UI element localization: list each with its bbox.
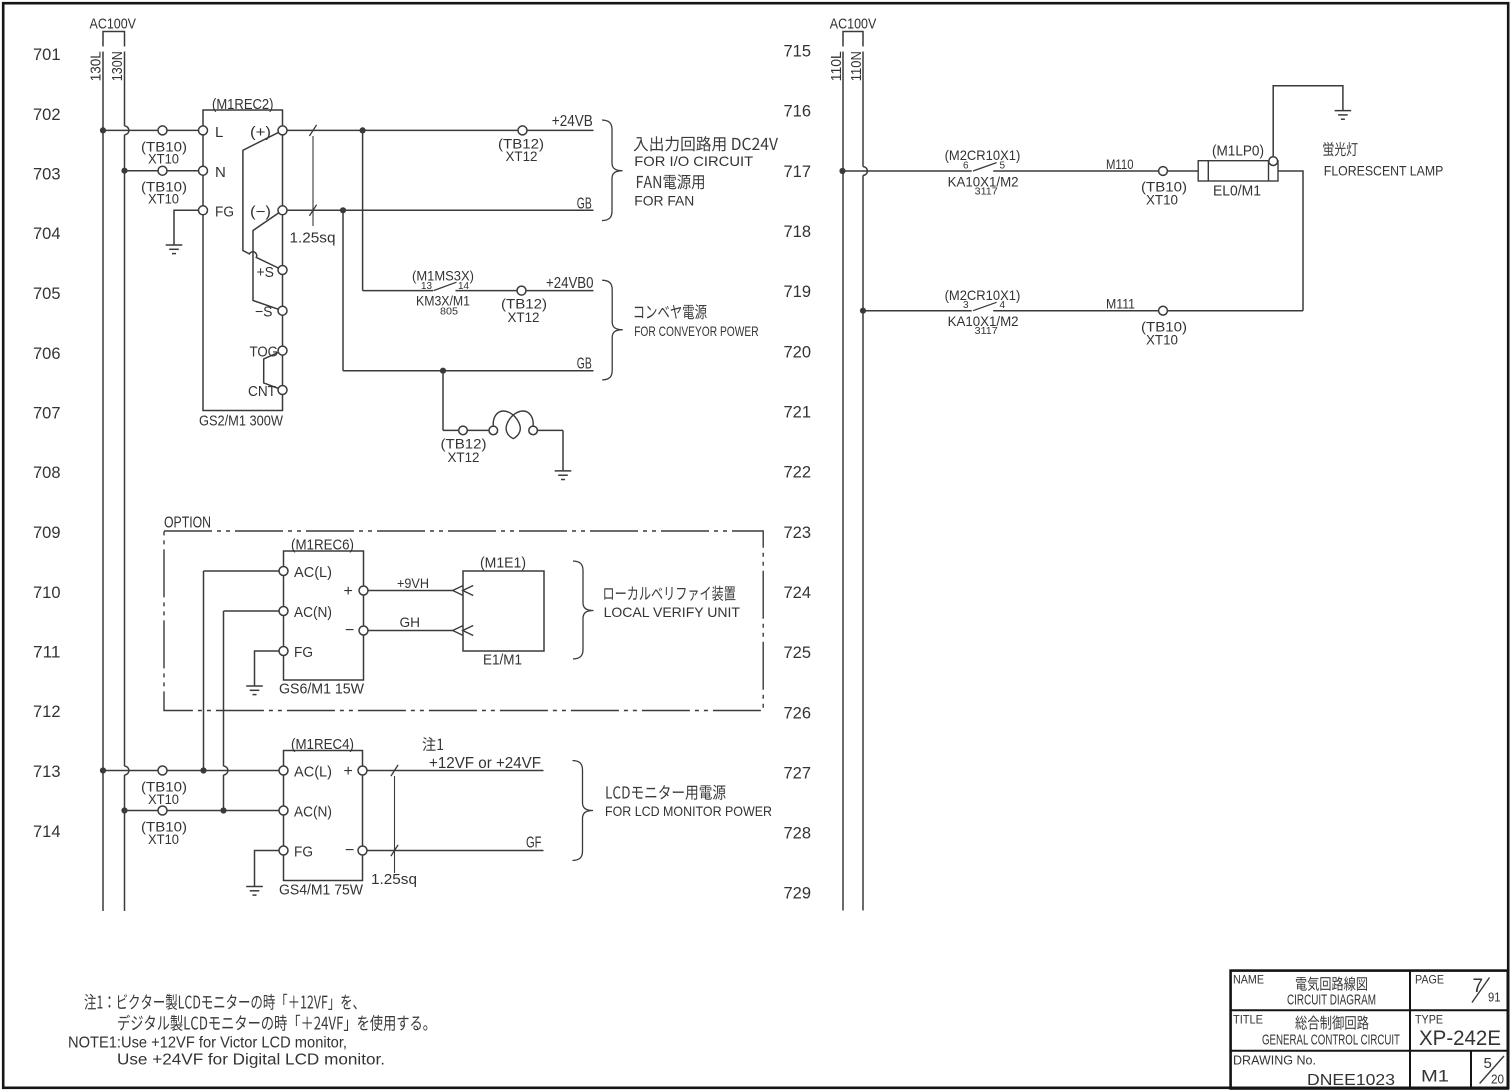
svg-text:20: 20 [1491, 1072, 1504, 1087]
svg-text:XT10: XT10 [1146, 333, 1178, 348]
svg-text:(M2CR10X1): (M2CR10X1) [945, 287, 1021, 303]
svg-text:XT12: XT12 [448, 450, 480, 465]
svg-text:13: 13 [421, 281, 432, 292]
svg-text:110N: 110N [848, 51, 865, 81]
svg-text:FOR CONVEYOR POWER: FOR CONVEYOR POWER [634, 323, 758, 339]
svg-text:707: 707 [33, 405, 61, 423]
svg-text:(M1REC2): (M1REC2) [212, 96, 274, 113]
svg-text:6: 6 [963, 160, 969, 171]
svg-text:DNEE1023: DNEE1023 [1307, 1072, 1395, 1089]
svg-text:AC(N): AC(N) [294, 604, 332, 621]
svg-text:−: − [345, 622, 354, 639]
svg-text:711: 711 [33, 644, 61, 662]
svg-text:GENERAL CONTROL CIRCUIT: GENERAL CONTROL CIRCUIT [1262, 1033, 1400, 1049]
svg-text:710: 710 [33, 584, 61, 602]
svg-text:712: 712 [33, 703, 61, 721]
svg-text:FG: FG [294, 644, 313, 661]
svg-text:E1/M1: E1/M1 [483, 652, 522, 669]
svg-text:GH: GH [400, 614, 421, 630]
svg-text:725: 725 [784, 644, 812, 662]
svg-text:3117: 3117 [975, 187, 998, 198]
svg-text:GS6/M1 15W: GS6/M1 15W [279, 681, 365, 698]
svg-text:713: 713 [33, 763, 61, 781]
svg-text:1.25sq: 1.25sq [290, 230, 336, 247]
svg-text:FOR I/O CIRCUIT: FOR I/O CIRCUIT [634, 153, 753, 169]
svg-text:+24VB0: +24VB0 [546, 275, 594, 292]
svg-text:130L: 130L [88, 51, 105, 81]
svg-text:729: 729 [784, 885, 812, 903]
svg-text:FG: FG [215, 204, 234, 221]
svg-text:718: 718 [784, 223, 812, 241]
svg-text:714: 714 [33, 823, 61, 841]
svg-text:724: 724 [784, 584, 812, 602]
svg-text:726: 726 [784, 704, 812, 722]
svg-text:CNT: CNT [248, 383, 276, 400]
svg-text:(M1REC4): (M1REC4) [291, 736, 354, 753]
svg-text:TOG: TOG [250, 344, 279, 361]
svg-text:AC100V: AC100V [830, 16, 877, 33]
svg-text:LOCAL VERIFY UNIT: LOCAL VERIFY UNIT [604, 604, 741, 620]
svg-text:−S: −S [255, 304, 273, 321]
svg-text:XT10: XT10 [148, 832, 179, 847]
svg-text:704: 704 [33, 225, 61, 243]
svg-text:XT12: XT12 [508, 310, 540, 325]
svg-text:XT10: XT10 [148, 192, 179, 207]
svg-text:717: 717 [784, 163, 812, 181]
svg-text:715: 715 [784, 43, 812, 61]
svg-text:XT12: XT12 [506, 149, 538, 164]
svg-text:719: 719 [784, 283, 812, 301]
svg-text:GB: GB [577, 355, 592, 372]
svg-text:+9VH: +9VH [397, 575, 429, 591]
svg-text:XP-242E: XP-242E [1419, 1027, 1501, 1050]
svg-text:716: 716 [784, 103, 812, 121]
svg-text:3117: 3117 [975, 326, 998, 337]
svg-text:−: − [345, 842, 354, 859]
svg-text:XT10: XT10 [148, 792, 179, 807]
svg-text:722: 722 [784, 464, 812, 482]
svg-text:728: 728 [784, 825, 812, 843]
svg-text:702: 702 [33, 106, 61, 124]
svg-text:+: + [344, 583, 353, 600]
svg-text:EL0/M1: EL0/M1 [1213, 183, 1261, 200]
svg-text:XT10: XT10 [1146, 193, 1178, 208]
svg-text:+S: +S [257, 264, 275, 281]
svg-text:720: 720 [784, 343, 812, 361]
svg-text:GS2/M1 300W: GS2/M1 300W [199, 413, 284, 430]
svg-text:FOR LCD MONITOR POWER: FOR LCD MONITOR POWER [605, 803, 772, 819]
svg-text:M1: M1 [1421, 1068, 1449, 1086]
svg-text:721: 721 [784, 404, 812, 422]
svg-text:130N: 130N [109, 51, 126, 81]
svg-text:703: 703 [33, 166, 61, 184]
svg-text:727: 727 [784, 764, 812, 782]
svg-text:+12VF or +24VF: +12VF or +24VF [429, 755, 541, 772]
svg-text:+: + [344, 763, 353, 780]
svg-text:Use +24VF for Digital LCD moni: Use +24VF for Digital LCD monitor. [117, 1052, 385, 1069]
svg-text:FLORESCENT LAMP: FLORESCENT LAMP [1324, 163, 1444, 179]
svg-text:(−): (−) [250, 204, 271, 221]
svg-text:XT10: XT10 [148, 152, 179, 167]
svg-text:AC(L): AC(L) [294, 764, 332, 781]
svg-text:M110: M110 [1106, 156, 1134, 172]
svg-text:L: L [215, 124, 223, 141]
svg-text:GB: GB [577, 196, 592, 213]
svg-text:DRAWING No.: DRAWING No. [1233, 1053, 1316, 1068]
svg-text:CIRCUIT DIAGRAM: CIRCUIT DIAGRAM [1287, 993, 1376, 1009]
svg-text:91: 91 [1488, 990, 1501, 1005]
svg-text:5: 5 [1484, 1055, 1492, 1072]
svg-text:(M1LP0): (M1LP0) [1212, 143, 1264, 160]
svg-text:5: 5 [1000, 160, 1006, 171]
svg-text:705: 705 [33, 285, 61, 303]
svg-text:PAGE: PAGE [1415, 973, 1444, 987]
svg-text:TYPE: TYPE [1415, 1013, 1443, 1027]
svg-text:1.25sq: 1.25sq [371, 871, 417, 888]
svg-text:14: 14 [458, 281, 469, 292]
svg-text:706: 706 [33, 345, 61, 363]
svg-text:110L: 110L [828, 51, 845, 81]
svg-text:AC(N): AC(N) [294, 804, 332, 821]
svg-text:FOR FAN: FOR FAN [634, 193, 694, 209]
svg-text:4: 4 [1000, 300, 1006, 311]
svg-text:+24VB: +24VB [552, 113, 593, 130]
svg-text:FG: FG [294, 844, 313, 861]
svg-text:805: 805 [440, 307, 458, 318]
svg-text:(M1REC6): (M1REC6) [291, 537, 354, 554]
svg-text:7: 7 [1473, 976, 1484, 997]
svg-text:TITLE: TITLE [1233, 1013, 1263, 1027]
svg-text:(M2CR10X1): (M2CR10X1) [945, 147, 1021, 163]
svg-text:708: 708 [33, 464, 61, 482]
svg-text:NAME: NAME [1233, 973, 1264, 987]
svg-text:GF: GF [526, 835, 542, 852]
svg-text:GS4/M1 75W: GS4/M1 75W [279, 882, 364, 899]
svg-text:OPTION: OPTION [164, 515, 211, 532]
svg-text:NOTE1:Use +12VF for Victor LCD: NOTE1:Use +12VF for Victor LCD monitor, [68, 1035, 347, 1052]
svg-text:N: N [215, 164, 226, 181]
svg-text:701: 701 [33, 46, 61, 64]
svg-text:(+): (+) [250, 124, 271, 141]
svg-text:AC(L): AC(L) [294, 564, 332, 581]
svg-text:723: 723 [784, 524, 812, 542]
svg-text:AC100V: AC100V [90, 16, 137, 33]
svg-text:(M1E1): (M1E1) [480, 555, 526, 572]
svg-text:3: 3 [963, 300, 969, 311]
svg-text:M111: M111 [1106, 296, 1135, 312]
svg-text:709: 709 [33, 524, 61, 542]
